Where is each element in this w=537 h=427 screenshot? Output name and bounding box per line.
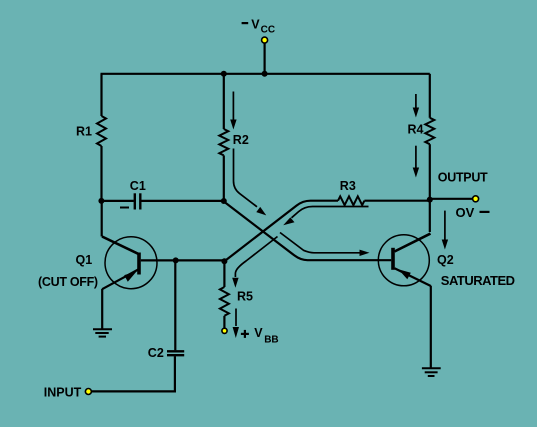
current arrow R5 to +VBB (235, 309, 237, 327)
svg-text:R3: R3 (340, 179, 356, 193)
wire cross-coupling diagonal B (Q1 base node to R3) (224, 201, 338, 262)
wire R5 bottom to VBB terminal (223, 316, 225, 328)
label +VBB (241, 326, 279, 345)
svg-text:R5: R5 (237, 289, 253, 303)
wire cross-coupling diagonal A (R2 node to Q2 base) (224, 202, 391, 261)
svg-text:OV: OV (456, 205, 475, 220)
transistor Q1 (102, 237, 157, 290)
svg-text:Q2: Q2 (437, 253, 454, 267)
svg-text:Q1: Q1 (76, 253, 93, 267)
terminal INPUT (85, 389, 91, 395)
arrowhead to +VBB (233, 327, 239, 338)
current arrow into R4 (415, 94, 417, 110)
svg-text:SATURATED: SATURATED (441, 273, 515, 288)
wire Q1 base lead (141, 259, 226, 261)
resistor R4 (425, 118, 434, 144)
resistor R3 (338, 196, 364, 205)
svg-text:R2: R2 (233, 133, 249, 147)
wire R2 bottom to node (223, 155, 225, 201)
current arrow cross to Q2 base (flow line) (280, 233, 361, 253)
wire R1 bottom to C1 node (100, 146, 102, 201)
node junction output (427, 197, 433, 203)
terminal OUTPUT (473, 196, 479, 202)
resistor R1 (97, 116, 106, 146)
svg-text:(CUT OFF): (CUT OFF) (38, 275, 98, 289)
label -Vcc (242, 17, 275, 35)
label OV- (456, 205, 490, 220)
current arrow R3 to cross (flow line) (292, 207, 369, 218)
node junction rail/Vcc (262, 71, 268, 77)
capacitor C1 (135, 193, 141, 209)
wire R5 column (223, 261, 225, 287)
svg-text:R4: R4 (408, 123, 424, 137)
wire Vcc drop (264, 44, 266, 74)
svg-text:V: V (254, 326, 263, 340)
current arrow output 0V (444, 211, 446, 241)
svg-text:C1: C1 (130, 179, 146, 193)
wire Q1 emitter to ground (101, 289, 103, 329)
current arrow into R2 (232, 92, 234, 121)
svg-text:CC: CC (261, 24, 275, 35)
wire R4 bottom to output node (429, 144, 431, 199)
wire left column upper (rail to R1) (100, 74, 102, 116)
wire C1 right lead (141, 200, 224, 202)
arrowhead out of R4 (413, 168, 419, 178)
wire output terminal lead (430, 198, 472, 200)
arrowhead into R4 (413, 108, 419, 118)
capacitor C2 (167, 351, 184, 355)
svg-text:BB: BB (264, 335, 278, 346)
wire Q1 base node down to C2 (174, 260, 176, 350)
arrowhead R3 flow (283, 217, 294, 225)
wire C1 left lead (101, 200, 134, 202)
wire top rail (101, 73, 430, 75)
ground (Q2 emitter) (422, 368, 441, 376)
resistor R5 (220, 287, 229, 316)
current arrow R2 to cross (flow line) (234, 149, 258, 207)
arrowhead output 0V (442, 240, 448, 250)
resistor R2 (219, 129, 228, 155)
svg-text:V: V (251, 17, 260, 31)
current arrow cross to R5 (flow line) (235, 237, 277, 278)
terminal +VBB (222, 328, 227, 333)
wire Q2 emitter to ground (430, 286, 432, 368)
wire R2 column upper (rail to R2) (223, 74, 225, 129)
arrowhead R2 flow (256, 207, 266, 216)
wire output node to Q2 collector bend (429, 200, 431, 232)
wire right column upper (rail to R4) (429, 74, 431, 118)
wire C1 node to Q1 collector bend (101, 201, 103, 237)
svg-text:INPUT: INPUT (44, 386, 82, 400)
node junction R2/C1/diagonal (221, 198, 227, 204)
node junction rail/R2 (221, 71, 227, 77)
node junction Q1 base/R5/diagonal (221, 258, 227, 264)
transistor Q2 (378, 234, 431, 286)
wire INPUT lead (92, 390, 176, 392)
svg-text:R1: R1 (76, 125, 92, 139)
svg-text:C2: C2 (148, 346, 164, 360)
arrowhead into R2 (230, 120, 236, 130)
wire C2 bottom to INPUT corner (174, 356, 176, 391)
arrowhead to R5 (232, 278, 238, 288)
label C1 minus (120, 207, 129, 209)
node junction Q1 base/C2 (173, 257, 179, 263)
arrowhead to Q2 base (360, 250, 370, 256)
current arrow out of R4 (415, 146, 417, 169)
svg-text:OUTPUT: OUTPUT (438, 171, 488, 185)
ground (Q1 emitter) (93, 329, 112, 336)
terminal -Vcc (262, 37, 268, 43)
node junction R1/C1 (98, 198, 104, 204)
wire R3 right lead to output node (364, 200, 429, 202)
